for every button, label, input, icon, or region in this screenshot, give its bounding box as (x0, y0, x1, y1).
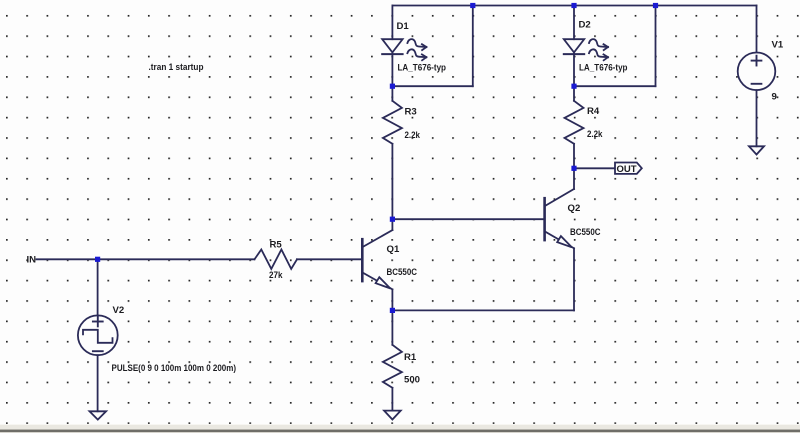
svg-text:V2: V2 (113, 305, 125, 316)
wire V2 drop (97, 259, 99, 315)
svg-text:IN: IN (27, 255, 37, 266)
wire D2 bypass vertical (655, 6, 657, 87)
svg-text:Q2: Q2 (568, 203, 581, 214)
resistor R5 (255, 250, 363, 269)
status bar strip (0, 424, 800, 425)
diode D2 (564, 39, 608, 60)
svg-text:LA_T676-typ: LA_T676-typ (579, 63, 628, 74)
wire Q2 emitter down (573, 248, 575, 310)
svg-text:PULSE(0 9 0 100m 100m 0 200m): PULSE(0 9 0 100m 100m 0 200m) (112, 363, 237, 374)
wire D1 anode from rail (391, 6, 393, 40)
node Q1 collector (390, 217, 395, 222)
resistor R4 (565, 86, 584, 168)
svg-text:Q1: Q1 (387, 244, 400, 255)
svg-text:.tran 1 startup: .tran 1 startup (149, 62, 204, 73)
node IN-V2 (95, 257, 100, 262)
diode D1 (382, 39, 426, 60)
svg-text:2.2k: 2.2k (587, 129, 603, 140)
svg-text:BC550C: BC550C (570, 227, 601, 238)
voltage source V1 (738, 53, 776, 91)
node D1 cathode (390, 84, 395, 89)
svg-text:D1: D1 (397, 21, 410, 32)
ground V1 (749, 146, 764, 154)
ground V2 (90, 411, 107, 419)
resistor R1 (383, 310, 402, 410)
svg-text:9: 9 (772, 92, 777, 103)
svg-text:27k: 27k (269, 270, 283, 281)
wire OUT stub (574, 167, 615, 169)
voltage source V2 (78, 315, 118, 355)
svg-text:R3: R3 (405, 107, 417, 118)
node Q2 collector (571, 166, 576, 171)
ground R1 (384, 411, 401, 420)
svg-text:OUT: OUT (617, 164, 637, 175)
node emitters (390, 308, 395, 313)
resistor R3 (383, 86, 402, 230)
node rail-bypass2 (653, 3, 658, 8)
svg-text:BC550C: BC550C (387, 267, 418, 278)
flag OUT (615, 163, 642, 174)
svg-text:2.2k: 2.2k (405, 130, 421, 141)
wire Q1 collector to Q2 base (392, 218, 544, 220)
svg-text:R1: R1 (404, 352, 417, 363)
wire D1 cathode to node (391, 52, 393, 86)
wire V2 to ground (97, 355, 99, 411)
svg-text:R4: R4 (587, 106, 600, 117)
wire D1 bypass vertical (472, 6, 474, 87)
svg-text:V1: V1 (772, 40, 784, 51)
wire V1 drop from rail (756, 6, 758, 53)
svg-text:LA_T676-typ: LA_T676-typ (398, 63, 447, 74)
wire D1 bypass horizontal (392, 85, 472, 87)
transistor Q2 (545, 168, 574, 248)
svg-text:500: 500 (404, 375, 420, 386)
node rail-bypass1 (470, 3, 475, 8)
wire V1 to ground (756, 90, 758, 146)
transistor Q1 (362, 230, 392, 310)
wire IN lead (37, 258, 255, 260)
svg-text:R5: R5 (270, 240, 283, 251)
wire top rail (392, 5, 756, 7)
wire emitter row (392, 309, 574, 311)
svg-text:D2: D2 (579, 20, 591, 31)
wire D2 bypass horizontal (574, 85, 656, 87)
wire D2 cathode to node (573, 52, 575, 86)
node D2 cathode (571, 84, 576, 89)
wire D2 anode from rail (573, 6, 575, 40)
node rail-D2 (571, 3, 576, 8)
